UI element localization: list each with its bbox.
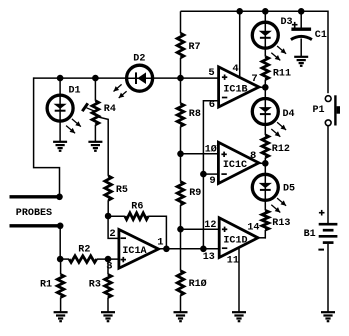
resistor R9 [177, 182, 184, 205]
node 7 IC1B out [262, 84, 269, 91]
wire R9 top lead [180, 154, 182, 182]
op-amp IC1A plus [121, 259, 126, 261]
resistor R8 [177, 104, 184, 127]
ground B1 [321, 311, 335, 313]
wire R7-R8 node lead [180, 58, 182, 104]
svg-text:R11: R11 [273, 68, 291, 80]
svg-text:7: 7 [251, 73, 257, 85]
wire R5 bottom lead [107, 200, 109, 216]
wire R4 tap to R5 [99, 117, 108, 176]
wire R2 right lead / pin 3 [97, 258, 119, 260]
svg-text:D1: D1 [69, 85, 81, 97]
node B pin 10 [177, 151, 184, 158]
op-amp IC1C plus [221, 153, 226, 155]
switch P1 [325, 96, 331, 102]
svg-text:6: 6 [209, 99, 215, 111]
svg-text:IC1C: IC1C [223, 159, 248, 171]
LED D5 [252, 174, 278, 200]
svg-text:IC1A: IC1A [122, 245, 147, 257]
wire R12 bottom lead [264, 158, 266, 164]
svg-text:IC1D: IC1D [223, 234, 247, 246]
node pin 13 tie [200, 246, 207, 253]
wire IC1A output / pin 13 bus [159, 248, 220, 250]
op-amp IC1B plus [222, 76, 227, 78]
svg-text:B1: B1 [304, 228, 316, 240]
LED D2 arrows [114, 84, 122, 91]
resistor R13 [262, 210, 269, 230]
wire R3 top lead [107, 259, 109, 274]
op-amp IC1C [218, 142, 258, 183]
wire D3 top lead [264, 11, 266, 56]
node rail/pin4 [236, 8, 243, 15]
ground C1 [294, 56, 308, 58]
wire pin 12 [181, 228, 220, 230]
wire D5 leads [264, 163, 266, 210]
wire R10 top lead [180, 229, 182, 271]
LED D3 arrows [277, 46, 286, 54]
wire R2 left lead [60, 258, 69, 260]
op-amp IC1D minus [222, 247, 227, 249]
resistor R12 [262, 135, 269, 158]
node probe 2 [57, 223, 64, 230]
svg-text:R3: R3 [89, 279, 101, 291]
svg-text:R13: R13 [272, 217, 290, 229]
node R5/R6 [105, 213, 112, 220]
svg-text:12: 12 [204, 219, 216, 231]
wire pin 11 [238, 245, 240, 312]
wire R3 bottom lead [107, 297, 109, 312]
wire IC1C output [259, 162, 266, 164]
node R2/R3 pin 3 [105, 256, 112, 263]
node C pin 12 [177, 226, 184, 233]
wire R1 top lead [60, 259, 62, 274]
wire C1 bottom lead [300, 39, 302, 58]
wire R4 top lead [94, 78, 96, 101]
trimmer R4 [92, 101, 99, 125]
svg-text:P1: P1 [313, 104, 325, 116]
svg-text:R9: R9 [189, 187, 201, 199]
wire R10 bottom lead [180, 295, 182, 312]
wire D1 lead [59, 78, 61, 142]
ground R3 [101, 311, 115, 313]
LED D1 [47, 95, 73, 121]
op-amp IC1B minus [222, 97, 227, 99]
wire D4 leads [264, 87, 266, 135]
node 8 IC1C out [262, 160, 269, 167]
wire IC1B output [259, 86, 265, 88]
LED D2 [127, 65, 153, 91]
wire battery to ground [327, 244, 329, 312]
node D1 top [57, 75, 64, 82]
resistor R11 [262, 57, 269, 80]
resistor R2 [69, 256, 97, 263]
svg-text:R7: R7 [189, 41, 201, 53]
svg-text:PROBES: PROBES [16, 207, 52, 219]
wire R1 bottom lead [60, 297, 62, 312]
svg-text:14: 14 [247, 222, 259, 234]
LED D3 [252, 22, 278, 48]
node IC1A out [163, 246, 170, 253]
op-amp IC1C minus [221, 173, 226, 175]
svg-text:D4: D4 [283, 108, 295, 120]
LED D4 [252, 99, 278, 125]
wire P1 to battery [327, 126, 329, 223]
wire IC1D output [258, 237, 266, 239]
svg-text:D3: D3 [281, 16, 293, 28]
svg-text:R4: R4 [104, 103, 116, 115]
resistor R1 [57, 275, 64, 298]
wire C1 top lead [300, 11, 302, 27]
svg-text:2: 2 [109, 228, 115, 240]
ground R10 [174, 311, 188, 313]
svg-text:D2: D2 [133, 52, 145, 64]
op-amp IC1B [219, 67, 259, 107]
svg-text:5: 5 [208, 67, 214, 79]
wire pin 9 [203, 173, 218, 175]
capacitor C1 [291, 28, 311, 31]
ground pin 11 [232, 311, 246, 313]
svg-text:R8: R8 [189, 108, 201, 120]
LED D1 arrows [72, 119, 81, 127]
node A R7/R8 [177, 75, 184, 82]
LED D4 arrows [277, 122, 286, 130]
op-amp IC1A minus [121, 237, 126, 239]
svg-text:3: 3 [106, 261, 112, 273]
wire rail to P1 [327, 11, 329, 94]
svg-text:R5: R5 [116, 184, 128, 196]
wire R6 left lead [108, 215, 125, 217]
resistor R6 [125, 213, 148, 220]
resistor R7 [177, 33, 184, 58]
svg-text:R2: R2 [78, 244, 90, 256]
resistor R3 [105, 275, 112, 298]
node rail/D3 [262, 8, 269, 15]
node R4 top [92, 75, 99, 82]
wire R9 bottom lead [180, 205, 182, 229]
svg-text:1: 1 [157, 237, 163, 249]
svg-text:4: 4 [232, 63, 238, 75]
ground R1 [54, 311, 68, 313]
wire R6 right lead to output [148, 216, 166, 249]
node probe 1 [56, 194, 63, 201]
op-amp IC1D [219, 218, 258, 258]
ground D1 [53, 141, 67, 143]
wire R4 bottom lead [94, 125, 96, 142]
svg-text:R12: R12 [272, 143, 290, 155]
battery B1 [319, 223, 338, 226]
probe tip 2 [10, 224, 62, 227]
op-amp IC1D plus [222, 228, 227, 230]
node rail/C1 [298, 8, 305, 15]
svg-text:C1: C1 [315, 29, 327, 41]
svg-text:11: 11 [227, 254, 239, 266]
svg-text:9: 9 [209, 175, 215, 187]
svg-text:R1: R1 [40, 279, 52, 291]
wire pin 4 [239, 11, 241, 79]
wire left drop to probe [34, 77, 60, 196]
svg-text:1Ø: 1Ø [205, 144, 218, 156]
wire +V top rail [181, 10, 329, 12]
wire R11 bottom lead [264, 80, 266, 88]
LED D5 arrows [277, 198, 286, 206]
svg-text:13: 13 [203, 251, 215, 263]
resistor R5 [105, 176, 112, 200]
svg-text:IC1B: IC1B [223, 83, 248, 95]
wire node-A rail [34, 77, 219, 79]
wire pin 10 [181, 153, 219, 155]
svg-text:R1Ø: R1Ø [189, 278, 208, 290]
wire R7 top lead [180, 11, 182, 33]
node pin 9 tie [200, 171, 207, 178]
svg-text:8: 8 [250, 150, 256, 162]
node R1/R2 [57, 256, 64, 263]
wire R8 bottom lead [180, 126, 182, 154]
resistor R10 [177, 271, 184, 295]
wire probe2 drop [59, 226, 61, 259]
wire pins 6-9-13 tie [203, 101, 218, 249]
ground R4 [88, 141, 102, 143]
op-amp IC1A [119, 230, 159, 269]
wire R5/R6 node to pin 2 [108, 216, 119, 238]
probe tip 1 [10, 195, 62, 198]
wire R13 bottom lead [264, 230, 266, 239]
svg-text:D5: D5 [283, 183, 295, 195]
svg-text:R6: R6 [131, 201, 143, 213]
